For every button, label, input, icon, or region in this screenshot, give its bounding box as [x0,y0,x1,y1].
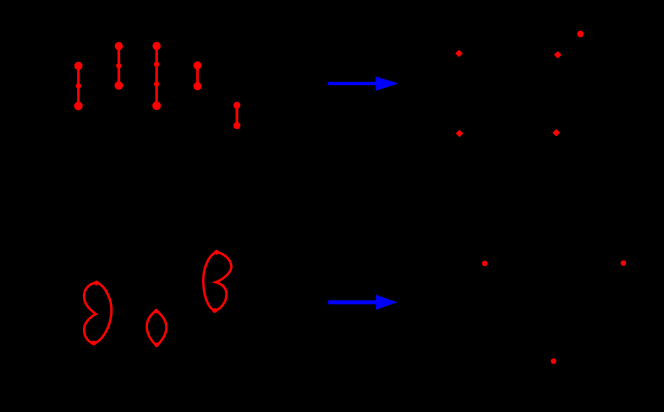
highlighted bond 3 (tallest, three segments) [153,42,161,109]
red atom dot C (product top-right corner) [577,31,584,38]
red loop 3 (hand-drawn circle, B-shaped, upper) [203,250,231,313]
red atom dot F (bottom product left) [482,261,488,267]
red atom dot G (bottom product right) [621,260,627,266]
highlighted bond 4 [194,62,201,90]
red loop 2 (small lens-shaped circle, bottom-middle) [147,309,167,347]
reaction arrow 2 (blue, bottom) [328,295,397,310]
red atom dot B (product top-middle-right) [554,51,562,58]
red loop 1 (hand-drawn circle, bottom-left structure, epsilon-shaped) [84,281,111,346]
red atom dot A (product top-left) [455,50,463,57]
red atom dot E (product bottom-right) [553,129,561,136]
red atom dot H (bottom product bottom-middle) [551,358,557,364]
highlighted bond 1 (red vertical bond with atom dots, leftmost) [75,62,83,109]
highlighted bond 2 [115,43,123,90]
reaction arrow 1 (blue, top) [328,76,399,90]
red atom dot D (product bottom-left) [456,130,464,137]
highlighted bond 5 (rightmost, lowest) [234,102,240,128]
